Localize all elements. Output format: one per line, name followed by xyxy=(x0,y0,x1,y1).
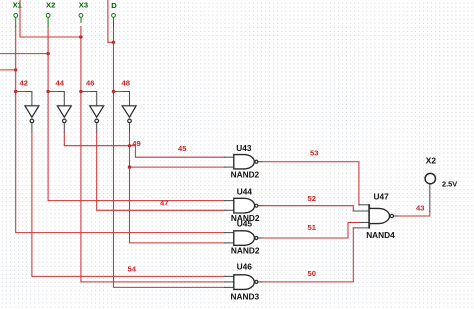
U46 input lead pin2 xyxy=(225,281,234,283)
wire net 44 feed from left edge to X2 column xyxy=(0,53,48,55)
U46 input lead pin1 xyxy=(225,275,234,277)
svg-text:NAND4: NAND4 xyxy=(366,230,395,240)
output terminal X2 (2.5V probe) xyxy=(425,155,457,188)
inverter 2 (net 44 -> net 45) xyxy=(57,106,71,133)
svg-text:49: 49 xyxy=(132,139,140,148)
nand gate U43 xyxy=(231,143,260,179)
nand gate U44 xyxy=(231,187,260,224)
U47 pin4 lead xyxy=(353,227,369,229)
wire net 53: U43 output to U47 pin1 xyxy=(262,162,359,205)
svg-text:44: 44 xyxy=(56,79,65,88)
wire net 52: U44 output to U47 pin2 xyxy=(262,206,353,211)
svg-text:43: 43 xyxy=(416,204,424,213)
inverter 2 input lead xyxy=(58,92,64,106)
U46 input lead pin3 xyxy=(225,286,234,288)
terminal D xyxy=(111,1,117,27)
svg-text:X3: X3 xyxy=(79,0,88,9)
junction node net42 at stub row xyxy=(14,90,17,93)
junction node net48 at (113.5,42) xyxy=(112,41,115,44)
U44 input lead pin1 xyxy=(225,200,234,202)
svg-text:45: 45 xyxy=(178,144,187,153)
terminal X2 input xyxy=(46,0,55,27)
wire net 54: inverter1 output down to U46 input1 xyxy=(32,132,225,276)
inverter 3 (net 46 -> net 47) xyxy=(90,106,104,133)
svg-text:54: 54 xyxy=(128,265,137,274)
U45 input lead pin1 xyxy=(225,232,234,234)
U46 output lead xyxy=(258,281,262,283)
junction node net44 at (48.1,52.4) xyxy=(46,52,49,55)
nand gate U46 xyxy=(231,262,260,302)
junction node net46 at stub row xyxy=(79,90,82,93)
svg-text:NAND2: NAND2 xyxy=(231,246,260,256)
svg-text:U43: U43 xyxy=(236,143,252,153)
U45 output lead xyxy=(258,237,262,239)
wire net 45: inverter2 output jog to U43 input1 xyxy=(64,132,224,157)
junction node net49 at (129.5,167.1) xyxy=(128,165,131,168)
wire net 50: U46 output to U47 pin4 xyxy=(262,228,353,282)
svg-text:50: 50 xyxy=(308,269,316,278)
svg-text:51: 51 xyxy=(308,223,317,232)
terminal X1 xyxy=(13,0,23,27)
wire net 46 feed from top edge to X3 column xyxy=(20,0,81,37)
svg-text:52: 52 xyxy=(308,194,316,203)
inverter 4 input lead xyxy=(123,92,129,106)
U43 input lead pin2 xyxy=(225,166,234,168)
U43 input lead pin1 xyxy=(225,156,234,158)
svg-text:47: 47 xyxy=(160,199,168,208)
svg-text:X2: X2 xyxy=(46,0,55,9)
wire net 42 feed from left edge to X1 column xyxy=(0,69,16,71)
junction node net49 at (129.5,145.7) xyxy=(128,144,131,147)
junction node net44 at stub row xyxy=(46,90,49,93)
svg-text:D: D xyxy=(111,1,117,10)
svg-text:U46: U46 xyxy=(237,262,253,272)
wire net 44: X2 column down to U44 input1 xyxy=(48,27,225,201)
U43 output lead xyxy=(258,161,262,163)
U45 input lead pin2 xyxy=(225,242,234,244)
svg-text:X1: X1 xyxy=(13,0,23,9)
wire net44 stub to inverter 2 input xyxy=(48,91,58,93)
U47 output lead xyxy=(394,215,398,217)
inverter 3 input lead xyxy=(91,92,97,106)
wire net48 stub to inverter 4 input xyxy=(114,91,124,93)
svg-text:53: 53 xyxy=(310,149,318,158)
junction node net46 at (80.9,33.5) xyxy=(79,35,83,39)
terminal X2 output lead xyxy=(429,184,431,212)
nand gate U45 xyxy=(231,219,260,256)
junction node net42 at (15.7,69.8) xyxy=(14,68,17,71)
svg-text:48: 48 xyxy=(122,79,130,88)
svg-text:U44: U44 xyxy=(237,187,253,197)
U47 pin1 lead xyxy=(359,204,369,206)
svg-text:X2: X2 xyxy=(426,155,437,165)
U44 input lead pin2 xyxy=(225,209,234,211)
svg-text:NAND3: NAND3 xyxy=(231,291,260,301)
wire net 49: inverter4 output down to U45 input2 xyxy=(130,132,225,243)
inverter 1 (net 42 -> net 54) xyxy=(25,106,39,133)
U44 output lead xyxy=(258,205,262,207)
junction node net48 at stub row xyxy=(112,90,115,93)
inverter 4 (net 48 -> net 49) xyxy=(122,106,136,133)
wire net 42: X1 column down to U45 input1 xyxy=(16,27,225,233)
wire net 46: X3 column down to U46 input2 xyxy=(81,27,225,282)
wire net 43: U47 output to terminal X2 xyxy=(398,212,430,217)
wire net 47: inverter3 output down to U44 input2 xyxy=(97,132,225,210)
terminal X3 xyxy=(79,0,88,23)
wire net 49 branch to U43 input2 xyxy=(130,166,225,168)
nand gate U47 xyxy=(366,191,395,240)
wire net46 stub to inverter 3 input xyxy=(81,91,91,93)
svg-text:42: 42 xyxy=(20,79,28,88)
svg-text:2.5V: 2.5V xyxy=(442,180,457,189)
wire net 48 feed from top edge to D column xyxy=(108,0,114,42)
svg-text:NAND2: NAND2 xyxy=(231,170,260,180)
wire net 48: D column down to U46 input3 xyxy=(114,27,225,288)
U47 pin2 lead xyxy=(353,210,369,212)
U47 pin3 lead xyxy=(360,222,370,224)
svg-text:46: 46 xyxy=(86,79,94,88)
wire net42 stub to inverter 1 input xyxy=(16,91,26,93)
svg-text:U45: U45 xyxy=(237,219,253,229)
svg-text:U47: U47 xyxy=(374,191,390,201)
inverter 1 input lead xyxy=(26,92,32,106)
wire net 51: U45 output to U47 pin3 xyxy=(262,223,360,239)
